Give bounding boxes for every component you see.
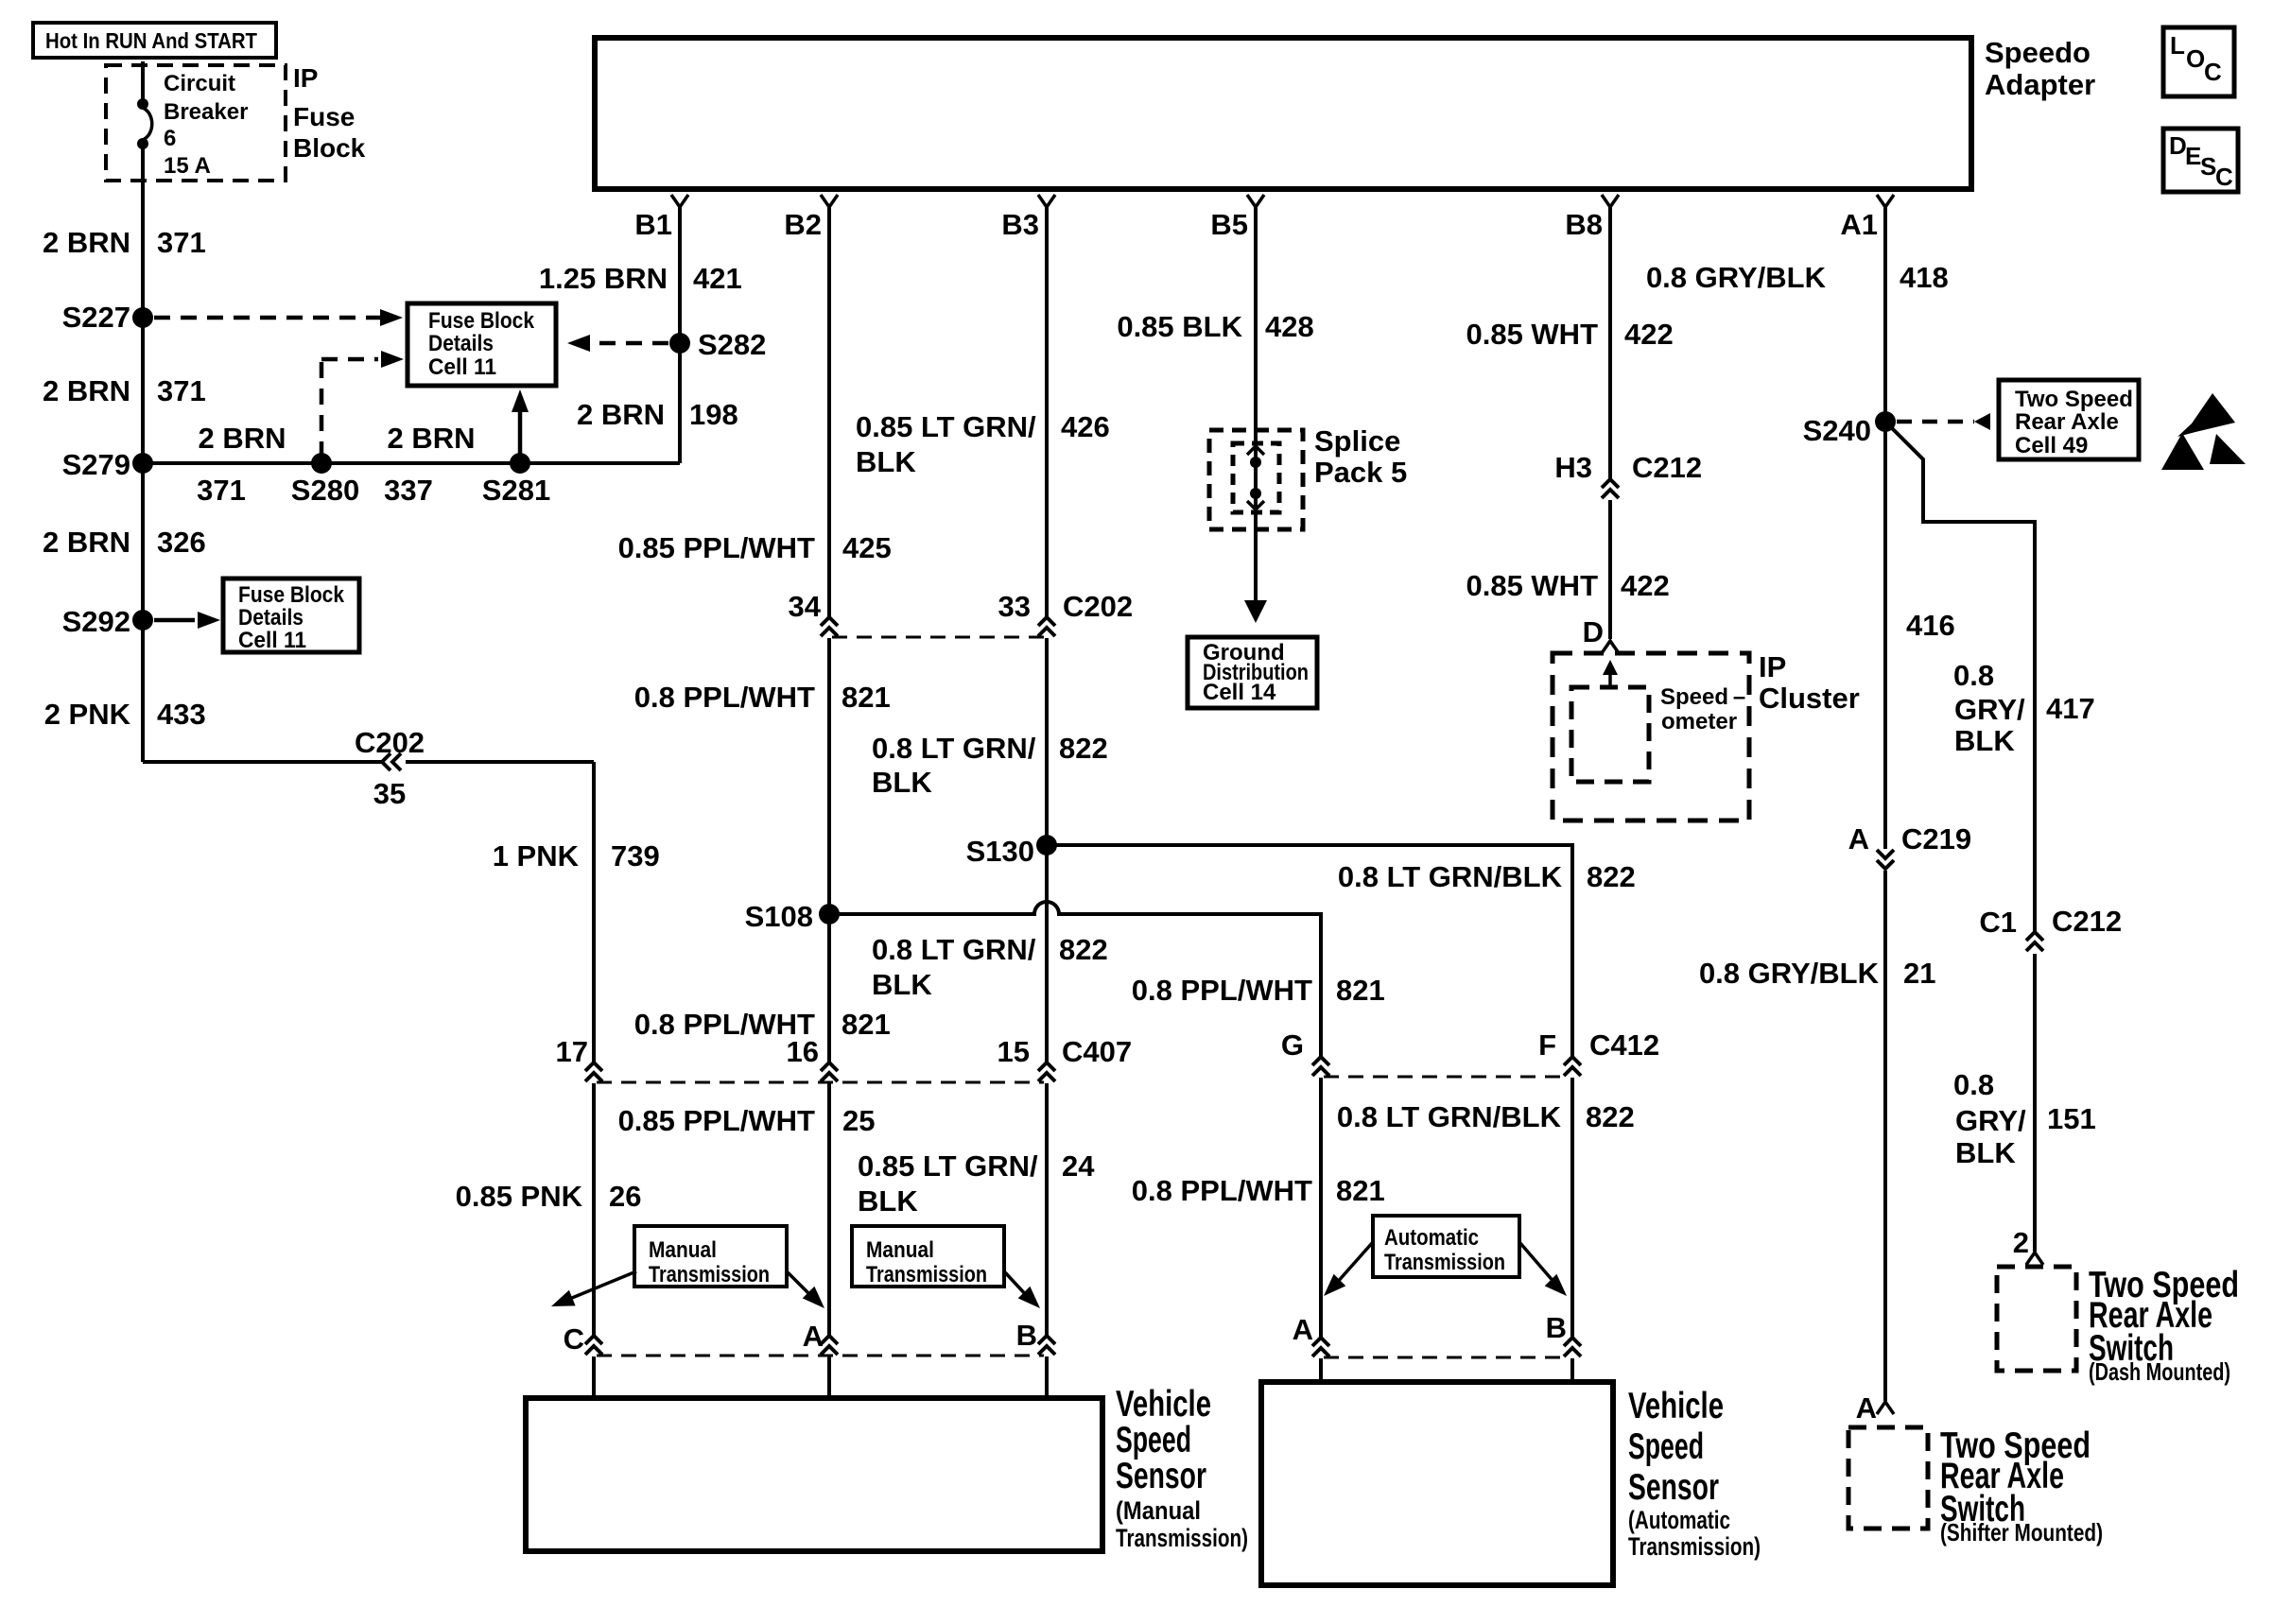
svg-text:B8: B8	[1565, 208, 1603, 241]
pin B5 of speedo adapter	[1247, 195, 1264, 207]
svg-text:0.8 PPL/WHT: 0.8 PPL/WHT	[1132, 974, 1312, 1007]
wire: B1 1.25 BRN 421	[678, 206, 682, 463]
svg-text:S281: S281	[482, 474, 550, 507]
svg-text:C219: C219	[1901, 822, 1971, 855]
svg-text:822: 822	[1586, 1100, 1635, 1133]
svg-text:GRY/: GRY/	[1955, 1104, 2026, 1137]
circuit breaker 6 15A symbol	[141, 61, 145, 101]
label box: Two Speed Rear Axle Cell 49	[1999, 380, 2139, 459]
svg-text:0.85 LT GRN/: 0.85 LT GRN/	[856, 410, 1036, 443]
svg-text:Breaker: Breaker	[164, 99, 248, 125]
svg-text:2 BRN: 2 BRN	[43, 374, 130, 407]
svg-text:Transmission): Transmission)	[1628, 1532, 1761, 1561]
svg-text:0.8 GRY/BLK: 0.8 GRY/BLK	[1646, 261, 1827, 294]
splice S108	[819, 904, 840, 924]
svg-text:B2: B2	[784, 208, 822, 241]
svg-text:425: 425	[842, 531, 892, 564]
label box: Manual Transmission (left)	[634, 1226, 787, 1287]
svg-text:D: D	[1583, 615, 1604, 648]
svg-text:2 BRN: 2 BRN	[43, 526, 130, 559]
splice S279	[132, 453, 153, 474]
svg-text:Transmission: Transmission	[649, 1262, 770, 1287]
arrow S281 up to fuse block details box	[518, 408, 523, 458]
svg-text:S108: S108	[745, 900, 813, 933]
svg-text:421: 421	[693, 262, 742, 295]
svg-text:ometer: ometer	[1661, 709, 1737, 734]
svg-text:2 BRN: 2 BRN	[198, 422, 286, 455]
svg-text:15: 15	[998, 1035, 1030, 1068]
svg-text:2 BRN: 2 BRN	[43, 226, 130, 259]
svg-text:Speed: Speed	[1628, 1426, 1704, 1467]
wire: B8 down	[1608, 206, 1612, 478]
splice S280	[311, 453, 332, 474]
svg-text:26: 26	[609, 1180, 641, 1213]
svg-text:25: 25	[842, 1104, 875, 1137]
svg-text:(Dash Mounted): (Dash Mounted)	[2089, 1357, 2230, 1386]
wire: S108 branch to auto VSS pin G (with hop over B3)	[829, 902, 1321, 1057]
connector C212 pin H3	[1602, 479, 1619, 488]
svg-text:0.8 GRY/BLK: 0.8 GRY/BLK	[1699, 957, 1880, 990]
svg-text:35: 35	[373, 777, 406, 810]
svg-text:C: C	[2215, 163, 2233, 191]
svg-text:Sensor: Sensor	[1116, 1456, 1206, 1496]
svg-text:O: O	[2186, 44, 2205, 73]
dashed line connector C407	[597, 1081, 1044, 1084]
svg-text:1.25 BRN: 1.25 BRN	[539, 262, 668, 295]
svg-text:2 BRN: 2 BRN	[387, 422, 475, 455]
svg-text:Speed: Speed	[1116, 1420, 1191, 1460]
svg-text:Details: Details	[428, 331, 494, 356]
svg-text:Transmission: Transmission	[1384, 1250, 1505, 1275]
connector C202 pin 33	[1038, 617, 1055, 626]
component: Vehicle Speed Sensor (Manual Transmission) box	[526, 1398, 1102, 1551]
wire: B3 down	[1045, 206, 1049, 617]
svg-text:Splice: Splice	[1314, 424, 1400, 458]
svg-text:IP: IP	[293, 63, 318, 93]
svg-text:C: C	[2204, 58, 2222, 86]
svg-text:BLK: BLK	[1955, 1136, 2016, 1169]
svg-text:Transmission): Transmission)	[1116, 1524, 1248, 1552]
connector C407 pin 15	[1038, 1063, 1055, 1071]
svg-text:Cell 14: Cell 14	[1203, 680, 1276, 705]
wire: corner down to C202 pin 35 horizontal	[143, 760, 382, 764]
svg-text:A: A	[1856, 1391, 1877, 1425]
LOC legend box	[2163, 27, 2234, 96]
svg-text:0.8: 0.8	[1953, 659, 1994, 692]
dashed line automatic VSS connector	[1324, 1356, 1570, 1359]
svg-text:0.8: 0.8	[1953, 1068, 1994, 1101]
svg-text:Cluster: Cluster	[1759, 682, 1860, 715]
svg-text:416: 416	[1906, 609, 1955, 642]
pin A1 of speedo adapter	[1877, 195, 1894, 207]
svg-text:A: A	[803, 1320, 824, 1353]
svg-text:822: 822	[1059, 732, 1108, 765]
svg-text:6: 6	[164, 126, 176, 151]
svg-text:326: 326	[157, 526, 206, 559]
connector C407 pin 17	[585, 1063, 602, 1071]
svg-text:0.85 PNK: 0.85 PNK	[456, 1180, 583, 1213]
svg-text:Manual: Manual	[866, 1237, 934, 1263]
IP Cluster dashed box	[1553, 653, 1749, 821]
svg-text:Cell 49: Cell 49	[2015, 433, 2088, 458]
svg-text:Fuse: Fuse	[293, 102, 355, 131]
wire: A1 down	[1883, 206, 1887, 849]
svg-text:Two Speed: Two Speed	[2015, 387, 2133, 412]
svg-text:2 PNK: 2 PNK	[44, 698, 131, 731]
svg-text:0.8 PPL/WHT: 0.8 PPL/WHT	[634, 681, 815, 714]
pin B3 of speedo adapter	[1038, 195, 1055, 207]
component: Vehicle Speed Sensor (Automatic Transmission) box	[1261, 1382, 1613, 1585]
arrow to pin B	[1519, 1242, 1555, 1284]
svg-text:S130: S130	[966, 835, 1034, 868]
svg-text:S280: S280	[291, 474, 359, 507]
ground arrow	[1244, 600, 1267, 623]
svg-text:24: 24	[1062, 1149, 1095, 1183]
svg-text:Hot In RUN And START: Hot In RUN And START	[45, 28, 257, 53]
fuse block details cell 11 box (lower)	[223, 579, 359, 652]
DESC legend box	[2163, 129, 2238, 192]
svg-text:2: 2	[2013, 1226, 2029, 1259]
component: Speedo Adapter box	[595, 38, 1971, 189]
svg-text:Block: Block	[293, 133, 366, 163]
svg-text:34: 34	[789, 590, 822, 623]
svg-text:198: 198	[689, 398, 738, 431]
svg-text:Vehicle: Vehicle	[1116, 1384, 1211, 1425]
svg-text:822: 822	[1587, 860, 1636, 893]
svg-text:0.85 WHT: 0.85 WHT	[1466, 318, 1598, 351]
svg-text:16: 16	[787, 1035, 819, 1068]
pin B1 of speedo adapter	[671, 195, 688, 207]
svg-text:Cell 11: Cell 11	[428, 354, 496, 380]
svg-text:B: B	[1546, 1311, 1567, 1344]
svg-text:426: 426	[1061, 410, 1110, 443]
splice S130	[1036, 835, 1057, 855]
wire: C202 pin 35 down to VSS pin C	[592, 762, 596, 1063]
svg-text:GRY/: GRY/	[1954, 693, 2025, 726]
svg-text:821: 821	[842, 1008, 891, 1041]
svg-text:H3: H3	[1554, 451, 1592, 484]
svg-text:C212: C212	[1632, 451, 1702, 484]
svg-text:15 A: 15 A	[164, 153, 211, 179]
svg-text:B3: B3	[1001, 208, 1039, 241]
dashed line connector C412	[1324, 1076, 1570, 1079]
svg-text:0.85 PPL/WHT: 0.85 PPL/WHT	[618, 1104, 815, 1137]
svg-text:E: E	[2185, 142, 2201, 170]
svg-text:371: 371	[197, 474, 246, 507]
wire: S240 branch to C212 pin C1	[1885, 422, 2035, 931]
svg-text:BLK: BLK	[872, 968, 932, 1001]
svg-text:417: 417	[2046, 692, 2095, 725]
svg-text:Sensor: Sensor	[1628, 1467, 1719, 1508]
splice S282	[669, 333, 690, 354]
svg-text:0.8 PPL/WHT: 0.8 PPL/WHT	[1132, 1174, 1312, 1207]
svg-text:A: A	[1848, 822, 1869, 855]
connector C202 pin 35 chevrons	[382, 753, 390, 770]
svg-text:C202: C202	[355, 726, 425, 759]
svg-text:BLK: BLK	[856, 445, 916, 478]
wire: B2 down	[827, 206, 831, 617]
svg-text:422: 422	[1621, 569, 1670, 602]
svg-text:G: G	[1281, 1028, 1304, 1062]
splice S227	[132, 307, 153, 328]
svg-text:821: 821	[1336, 1174, 1385, 1207]
svg-text:Cell 11: Cell 11	[238, 628, 306, 653]
svg-text:A: A	[1293, 1313, 1313, 1346]
label box: Ground Distribution Cell 14	[1188, 637, 1317, 708]
arrow S292 to fuse block details cell 11	[154, 618, 195, 623]
svg-text:C407: C407	[1062, 1035, 1132, 1068]
dashed arrow S280 up to fuse block details	[320, 359, 324, 458]
Two Speed Rear Axle Switch (Dash Mounted) dashed box	[1997, 1267, 2076, 1371]
svg-text:822: 822	[1059, 933, 1108, 966]
svg-text:Speedo: Speedo	[1985, 36, 2091, 69]
svg-text:B5: B5	[1210, 208, 1248, 241]
svg-text:Transmission: Transmission	[866, 1262, 987, 1287]
svg-text:B1: B1	[634, 208, 672, 241]
arrow to pin B	[1004, 1271, 1029, 1298]
svg-text:433: 433	[157, 698, 206, 731]
label box: Hot In RUN And START	[33, 23, 276, 58]
svg-text:Details: Details	[238, 605, 304, 631]
svg-text:B: B	[1016, 1319, 1037, 1352]
svg-text:S282: S282	[698, 328, 766, 361]
svg-text:Vehicle: Vehicle	[1628, 1386, 1724, 1426]
svg-text:1 PNK: 1 PNK	[493, 839, 580, 872]
dashed arrow from Two Speed Rear Axle box to S240	[1897, 420, 1974, 424]
splice S281	[510, 453, 530, 474]
svg-text:371: 371	[157, 374, 206, 407]
svg-text:Adapter: Adapter	[1985, 68, 2095, 101]
svg-text:371: 371	[157, 226, 206, 259]
svg-text:Circuit: Circuit	[164, 71, 235, 96]
svg-text:BLK: BLK	[872, 766, 932, 799]
wire: B5 down to splice pack	[1254, 206, 1258, 605]
svg-text:F: F	[1538, 1028, 1556, 1062]
svg-text:BLK: BLK	[1954, 724, 2015, 757]
svg-text:0.8 LT GRN/: 0.8 LT GRN/	[872, 933, 1036, 966]
wire: breaker output down left column	[141, 147, 145, 762]
svg-text:(Shifter Mounted): (Shifter Mounted)	[1940, 1518, 2103, 1546]
label box: Manual Transmission (right)	[852, 1226, 1004, 1287]
speedometer inner dashed box	[1571, 687, 1649, 782]
arrow to pin A	[787, 1271, 813, 1298]
svg-text:C412: C412	[1589, 1028, 1659, 1062]
svg-text:2 BRN: 2 BRN	[577, 398, 665, 431]
svg-text:A1: A1	[1840, 208, 1878, 241]
svg-text:S240: S240	[1803, 414, 1871, 447]
svg-text:C1: C1	[1979, 906, 2017, 939]
svg-text:IP: IP	[1759, 650, 1786, 683]
svg-text:S292: S292	[62, 605, 130, 638]
svg-text:(Automatic: (Automatic	[1628, 1506, 1730, 1534]
IP fuse block dashed box	[106, 65, 286, 181]
svg-text:17: 17	[556, 1035, 588, 1068]
svg-text:C: C	[564, 1322, 584, 1356]
wire: S130 branch to auto VSS pin F	[1047, 845, 1572, 1057]
arrow to pin C	[572, 1271, 636, 1298]
svg-text:C202: C202	[1063, 590, 1133, 623]
svg-text:418: 418	[1900, 261, 1949, 294]
svg-text:S: S	[2200, 152, 2216, 181]
svg-text:151: 151	[2047, 1102, 2096, 1135]
svg-text:Speed –: Speed –	[1660, 684, 1745, 710]
svg-text:0.8 LT GRN/: 0.8 LT GRN/	[872, 732, 1036, 765]
svg-text:Rear Axle: Rear Axle	[2015, 409, 2119, 435]
svg-text:422: 422	[1624, 318, 1674, 351]
svg-text:L: L	[2170, 31, 2185, 60]
svg-text:Automatic: Automatic	[1384, 1225, 1479, 1251]
svg-text:0.85 PPL/WHT: 0.85 PPL/WHT	[618, 531, 815, 564]
ESD sensitivity symbol	[2178, 393, 2235, 437]
splice S292	[132, 610, 153, 631]
svg-text:821: 821	[842, 681, 891, 714]
dashed arrow S227 to fuse block details	[154, 316, 380, 320]
Two Speed Rear Axle Switch (Shifter Mounted) dashed box	[1848, 1427, 1928, 1529]
svg-text:821: 821	[1336, 974, 1385, 1007]
svg-text:Fuse Block: Fuse Block	[238, 582, 345, 608]
svg-text:S227: S227	[62, 301, 130, 334]
svg-text:428: 428	[1265, 310, 1314, 343]
svg-text:739: 739	[611, 839, 660, 872]
svg-text:0.85 BLK: 0.85 BLK	[1117, 310, 1242, 343]
dashed arrow S282 left to fuse block details	[590, 341, 668, 346]
svg-text:33: 33	[998, 590, 1031, 623]
connector C202 pin 34	[821, 617, 838, 626]
svg-text:(Manual: (Manual	[1116, 1496, 1201, 1525]
svg-text:0.85 LT GRN/: 0.85 LT GRN/	[858, 1149, 1038, 1183]
pin B8 of speedo adapter	[1602, 195, 1619, 207]
svg-text:BLK: BLK	[858, 1184, 918, 1218]
splice pack chevrons and dots	[1247, 446, 1264, 455]
svg-text:Manual: Manual	[649, 1237, 717, 1263]
svg-text:0.8 LT GRN/BLK: 0.8 LT GRN/BLK	[1338, 860, 1563, 893]
svg-text:D: D	[2169, 131, 2187, 160]
connector C407 pin 16	[821, 1063, 838, 1071]
wire: S279 horizontal bus to B1 corner	[143, 461, 680, 465]
splice S240	[1875, 411, 1896, 432]
svg-text:Fuse Block: Fuse Block	[428, 308, 535, 334]
svg-text:0.8 LT GRN/BLK: 0.8 LT GRN/BLK	[1337, 1100, 1562, 1133]
pin B2 of speedo adapter	[821, 195, 838, 207]
svg-text:21: 21	[1903, 957, 1935, 990]
svg-text:Pack 5: Pack 5	[1314, 456, 1407, 489]
arrow into speedometer	[1608, 669, 1612, 687]
svg-text:C212: C212	[2052, 905, 2122, 938]
fuse block details cell 11 box (upper)	[408, 303, 556, 386]
arrow to pin A	[1336, 1242, 1373, 1284]
svg-text:S279: S279	[62, 448, 130, 481]
label box: Automatic Transmission	[1373, 1216, 1519, 1277]
Splice Pack 5 dashed boxes	[1209, 430, 1303, 529]
svg-text:337: 337	[384, 474, 433, 507]
dashed line manual VSS connector	[597, 1355, 1044, 1357]
dashed line connector C202	[832, 636, 1044, 639]
svg-text:0.85 WHT: 0.85 WHT	[1466, 569, 1598, 602]
